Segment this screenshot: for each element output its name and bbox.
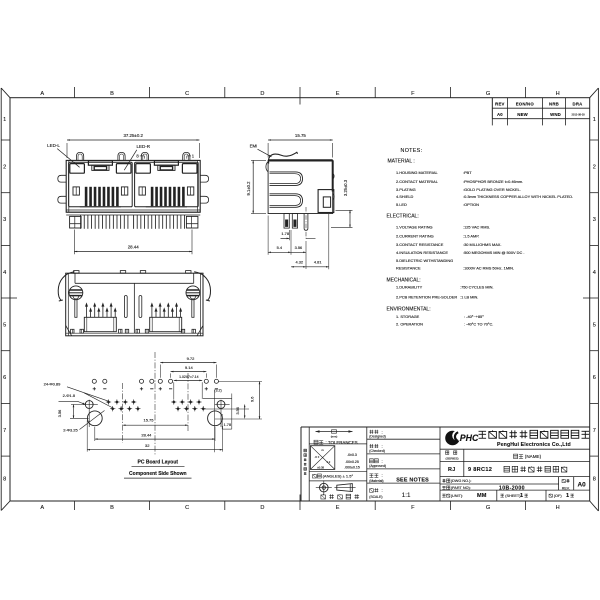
svg-text:8: 8	[3, 477, 6, 483]
svg-text:1: 1	[520, 493, 523, 499]
svg-text:9.1±0.2: 9.1±0.2	[246, 181, 251, 196]
svg-text:LED-R: LED-R	[136, 144, 150, 149]
svg-text:1.78: 1.78	[224, 423, 231, 427]
svg-text:1: 1	[593, 117, 596, 123]
svg-text:1.02X7=7.14: 1.02X7=7.14	[179, 375, 198, 379]
svg-text:15.75: 15.75	[143, 418, 154, 423]
svg-text:4.32: 4.32	[296, 259, 304, 264]
svg-text:A0: A0	[497, 112, 503, 117]
svg-text:(ANGLES) ± 1.5°: (ANGLES) ± 1.5°	[323, 474, 354, 479]
svg-text:3.PLATING: 3.PLATING	[396, 187, 416, 192]
svg-text:3.25±0.3: 3.25±0.3	[343, 179, 348, 196]
svg-text:MM: MM	[477, 493, 487, 499]
svg-text:.X ±: .X ±	[314, 455, 319, 459]
svg-text:2: 2	[3, 164, 6, 170]
svg-text:9.6: 9.6	[250, 397, 254, 402]
svg-text:3.56: 3.56	[295, 245, 303, 250]
svg-text:RJ: RJ	[448, 467, 456, 473]
svg-text:D: D	[260, 91, 264, 97]
svg-text:5: 5	[593, 322, 596, 328]
svg-text:3.CONTACT RESISTANCE: 3.CONTACT RESISTANCE	[396, 242, 444, 247]
svg-text::: :	[382, 458, 383, 463]
svg-text:PC Board Layout: PC Board Layout	[138, 459, 179, 465]
svg-text:9.72: 9.72	[187, 356, 196, 361]
svg-text:4: 4	[3, 270, 6, 276]
svg-text:E: E	[336, 91, 340, 97]
svg-text:REV: REV	[495, 101, 504, 106]
svg-text:8: 8	[593, 477, 596, 483]
svg-text:A0: A0	[578, 482, 587, 489]
svg-text:D: D	[260, 505, 264, 511]
svg-text:32: 32	[145, 443, 150, 448]
svg-text::: :	[382, 473, 383, 478]
svg-text:(UNIT):: (UNIT):	[451, 494, 463, 498]
svg-text:2-Φ3.25: 2-Φ3.25	[63, 428, 78, 433]
svg-text:6: 6	[593, 375, 596, 381]
svg-text:1.VOLTAGE RATING: 1.VOLTAGE RATING	[396, 225, 433, 230]
svg-text:(DWG NO.):: (DWG NO.):	[451, 479, 472, 483]
svg-text:15.75: 15.75	[295, 133, 307, 138]
svg-text:28.44: 28.44	[128, 245, 140, 250]
svg-text:(mm): (mm)	[331, 434, 338, 438]
svg-text:5: 5	[3, 322, 6, 328]
svg-text:1. STORAGE: 1. STORAGE	[396, 314, 420, 319]
svg-text:1: 1	[3, 117, 6, 123]
svg-text:LED-L: LED-L	[47, 143, 60, 148]
svg-text::30 MILLIOHMS MAX.: :30 MILLIOHMS MAX.	[463, 242, 502, 247]
svg-text:(NAME): (NAME)	[525, 454, 542, 459]
svg-text:.0±0.3: .0±0.3	[347, 453, 357, 457]
svg-text::OPTION: :OPTION	[463, 202, 479, 207]
svg-text:2. OPERATION: 2. OPERATION	[396, 321, 423, 326]
svg-text:B: B	[110, 91, 114, 97]
svg-text:A: A	[40, 91, 44, 97]
svg-text:NOTES:: NOTES:	[401, 148, 423, 154]
svg-text:2: 2	[593, 164, 596, 170]
svg-text:5.DIELECTRIC WITHSTANDING: 5.DIELECTRIC WITHSTANDING	[396, 258, 453, 263]
svg-text::125 VAC RMS.: :125 VAC RMS.	[463, 225, 490, 230]
svg-text::1.5 AMP.: :1.5 AMP.	[463, 233, 479, 238]
svg-text:PHC: PHC	[460, 433, 479, 443]
svg-text:NEW: NEW	[517, 112, 528, 117]
svg-text:Component Side Shown: Component Side Shown	[129, 471, 187, 477]
svg-text:±.2: ±.2	[327, 460, 331, 464]
svg-text::GOLD PLATING OVER NICKEL.: :GOLD PLATING OVER NICKEL.	[463, 187, 521, 192]
svg-text:±0.38: ±0.38	[317, 465, 324, 469]
svg-text:1.HOUSING MATERIAL: 1.HOUSING MATERIAL	[396, 170, 438, 175]
svg-text:(OF): (OF)	[554, 494, 563, 498]
svg-text:H: H	[556, 91, 560, 97]
svg-text:7: 7	[3, 428, 6, 434]
svg-text:B: B	[110, 505, 114, 511]
svg-text:.00±0.25: .00±0.25	[345, 460, 359, 464]
svg-text:4.INSULATION RESISTANCE: 4.INSULATION RESISTANCE	[396, 250, 448, 255]
svg-text:MECHANICAL:: MECHANICAL:	[387, 277, 421, 283]
svg-text:WND: WND	[550, 112, 561, 117]
svg-text:C: C	[185, 91, 189, 97]
svg-text:(Material): (Material)	[369, 479, 383, 483]
svg-text:G: G	[486, 91, 490, 97]
svg-text:28.44: 28.44	[141, 432, 152, 437]
svg-text::PBT: :PBT	[463, 170, 472, 175]
svg-text::1 LB MIN.: :1 LB MIN.	[460, 295, 478, 300]
svg-text::: :	[382, 488, 383, 493]
svg-text:(3.2): (3.2)	[214, 389, 221, 393]
svg-text::: :	[382, 444, 383, 449]
svg-text:(SCALE): (SCALE)	[369, 495, 382, 499]
svg-text:(Designed): (Designed)	[369, 435, 386, 439]
svg-text:(PART NO):: (PART NO):	[451, 486, 471, 490]
svg-text:.000±0.15: .000±0.15	[344, 466, 360, 470]
svg-text:2012-08-20: 2012-08-20	[571, 112, 585, 116]
svg-text:1:1: 1:1	[402, 492, 411, 499]
svg-text:9 8RC12: 9 8RC12	[468, 467, 492, 473]
svg-text:2.CONTACT MATERIAL: 2.CONTACT MATERIAL	[396, 179, 439, 184]
svg-text:37.25±0.2: 37.25±0.2	[123, 133, 143, 138]
svg-text:2.CURRENT RATING: 2.CURRENT RATING	[396, 233, 434, 238]
svg-text:F: F	[411, 91, 415, 97]
svg-text:PengHui Electronics Co.,Ltd: PengHui Electronics Co.,Ltd	[497, 442, 571, 448]
svg-text:DRA: DRA	[573, 101, 583, 106]
svg-text:1.78: 1.78	[281, 231, 289, 236]
svg-text:3: 3	[593, 217, 596, 223]
svg-text:RESISTANCE: RESISTANCE	[396, 265, 421, 270]
svg-text:EON/NO: EON/NO	[516, 101, 535, 106]
svg-text:3.56: 3.56	[236, 407, 240, 414]
svg-text:G: G	[486, 505, 490, 511]
svg-text:C: C	[185, 505, 189, 511]
svg-text:MATERIAL :: MATERIAL :	[388, 159, 415, 165]
svg-text:NRB: NRB	[549, 101, 559, 106]
svg-text:4: 4	[593, 270, 596, 276]
svg-text::0.3mm THICKNESS COPPER ALLOY: :0.3mm THICKNESS COPPER ALLOY WITH NICKE…	[463, 194, 573, 199]
svg-text:ELECTRICAL:: ELECTRICAL:	[387, 213, 419, 219]
svg-text::: :	[382, 429, 383, 434]
svg-text:(SERIES): (SERIES)	[445, 456, 458, 460]
svg-text::1000V AC RMS 50Hz. 1MIN.: :1000V AC RMS 50Hz. 1MIN.	[463, 265, 514, 270]
svg-text:H: H	[556, 505, 560, 511]
svg-text:1: 1	[566, 493, 569, 499]
svg-text:: TOLERANCES: : TOLERANCES	[326, 440, 358, 445]
svg-text:: -40°C TO 70°C.: : -40°C TO 70°C.	[464, 321, 493, 326]
svg-text:(Checked): (Checked)	[369, 449, 385, 453]
svg-text:SEE NOTES: SEE NOTES	[396, 478, 429, 484]
svg-text:3.56: 3.56	[58, 410, 62, 417]
svg-text::750 CYCLES MIN.: :750 CYCLES MIN.	[460, 285, 494, 290]
svg-text:(Approved): (Approved)	[369, 464, 386, 468]
svg-text:5.LED: 5.LED	[396, 202, 407, 207]
svg-text:7: 7	[593, 428, 596, 434]
svg-text:EMI: EMI	[250, 144, 258, 149]
svg-text:: -40°~+85°: : -40°~+85°	[464, 314, 484, 319]
svg-text:4.81: 4.81	[314, 259, 322, 264]
svg-text:5.4: 5.4	[277, 245, 283, 250]
svg-text:3: 3	[3, 217, 6, 223]
svg-text:1.DURABILITY: 1.DURABILITY	[396, 285, 423, 290]
svg-text:2-Φ1.8: 2-Φ1.8	[63, 393, 76, 398]
svg-text:A: A	[40, 505, 44, 511]
svg-text:24-Φ0.89: 24-Φ0.89	[44, 382, 62, 387]
svg-text::500 MEGOHMS MIN @ 500V DC .: :500 MEGOHMS MIN @ 500V DC .	[463, 250, 524, 255]
svg-text:2.PCB RETENTION PRE-SOLDER: 2.PCB RETENTION PRE-SOLDER	[396, 295, 457, 300]
svg-text:E: E	[336, 505, 340, 511]
svg-text:9.14: 9.14	[185, 365, 194, 370]
svg-text:ENVIRONMENTAL:: ENVIRONMENTAL:	[387, 306, 431, 312]
svg-text:F: F	[411, 505, 415, 511]
svg-text:(SHEET): (SHEET)	[505, 494, 521, 498]
svg-text:4.SHIELD: 4.SHIELD	[396, 194, 413, 199]
svg-text:6: 6	[3, 375, 6, 381]
svg-text::PHOSPHOR BRONZE t=0.46mm.: :PHOSPHOR BRONZE t=0.46mm.	[463, 179, 523, 184]
svg-text:REV.: REV.	[562, 486, 570, 490]
